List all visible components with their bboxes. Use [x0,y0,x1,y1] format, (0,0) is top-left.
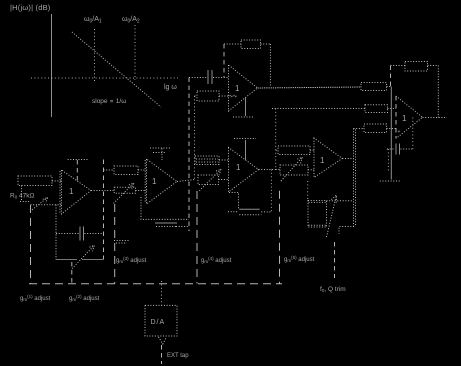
A1 left edge double [59,171,61,213]
riser C3 to A3 output [270,170,272,212]
D/A converter box [145,305,177,336]
slope line [72,32,161,107]
svg-text:f0, Q trim: f0, Q trim [320,286,346,293]
feedback capacitor C3 plate lower [239,214,261,216]
riser bus to D/A box [161,281,163,305]
y-axis [51,14,53,117]
control drop Q (dashed) [334,242,336,278]
wire node to R5 [195,95,198,97]
feedback cap drop from output [412,118,414,150]
capacitor C5 plate upper [233,116,254,118]
wire R5 to A3' [219,95,229,97]
fill texture R8 bottom [309,224,327,226]
wire offset branch down [55,205,57,260]
interstage capacitor C5 upper lead [245,98,247,117]
stub top cap to A2 [161,149,163,161]
riser A3 output up [275,109,277,170]
wire R11 to A5 [388,108,397,110]
control bus (long dashed) [29,283,282,285]
arrowhead R7 [297,157,302,163]
x-axis [31,77,178,79]
trimmer arrow C1 [72,245,94,268]
wire cap input right [213,77,229,79]
svg-text:+: + [398,129,401,135]
svg-text:|H(jω)| (dB): |H(jω)| (dB) [10,3,51,12]
variable resistor R2b box [114,187,135,193]
arrowhead R3b [216,169,221,175]
wire R2b to A2 [136,190,147,192]
wire A3' output long [258,87,362,88]
control drop gm3 (dashed) [114,204,116,284]
arrow of R7 [281,157,302,181]
wire mid from A3 riser [272,108,365,110]
top capacitor plate upper A2 [150,147,171,149]
coupling capacitor C4 plate right [211,70,213,84]
arrow of R8 [327,195,337,237]
trimmer arrowhead C1 [90,245,95,251]
resistor R2a box [114,166,138,175]
feedback cap wire down from input [141,197,189,219]
wire R2a to A2 [138,169,147,171]
svg-text:1: 1 [69,187,74,196]
tick marks on control gm3 [114,240,129,242]
arrowhead R2b [129,183,134,189]
op-amp A1 [62,170,92,214]
svg-text:R0 47kΩ: R0 47kΩ [10,193,35,200]
control drop gm1 (dashed) [30,205,32,284]
wire A3 output [259,169,276,171]
feedback capacitor C2 plate lower [156,226,176,228]
feedback wire top right A5 [428,65,439,67]
resistor R6 box [278,146,310,155]
wire node to R2a [104,169,115,171]
wire lower tap [339,227,354,234]
wire R9 to node [387,86,391,88]
input node marks A3' [230,95,232,97]
coupling capacitor C4 plate left [207,70,209,84]
resistor R5 box lower input A3' [197,91,219,101]
resistor R3a box (dense) [195,156,219,165]
input gm arrowhead [43,198,48,204]
capacitor C5 plate lower [234,138,256,140]
resistor R1 box [18,176,52,186]
wire A4 output [342,158,353,160]
wire trim-cap left [56,233,79,235]
A5 left edge (dashed) [395,96,397,139]
feedback resistor R10 box [405,62,428,72]
wire cap left [387,148,395,150]
Q-net stub down from R7 [307,181,309,201]
variable resistor R3b box [198,175,219,185]
arrowhead below box [159,337,167,344]
wire input lower left [20,201,31,203]
wire R3a to A3 [219,159,229,161]
svg-text:1: 1 [235,84,240,93]
wire lower return left [56,259,77,261]
svg-text:1: 1 [152,177,157,186]
wire input lower right [31,204,62,206]
control drop gm5 (dashed) [279,191,281,284]
capacitor C1 plate right [83,227,85,241]
wire R8 to riser [327,200,354,202]
fill texture R3a [196,158,218,160]
frequency marker w1 dashed [94,29,96,82]
wire stub C3 left [228,211,239,213]
riser to A3top input (long dashed) [188,78,190,232]
feedback T wire A1 [68,159,89,161]
Q-net resistor R8 box [308,201,327,228]
feedback capacitor C2 plate upper [155,222,177,224]
feedback riser right A3' [269,44,271,87]
wire cap right [401,148,413,150]
wire A5 output [423,117,448,119]
wire cap input left [189,77,207,79]
fill texture R8 top [309,201,327,203]
wire C3 to riser [261,211,271,213]
wire out to R7 [276,169,280,171]
wire R7 to A4 [308,169,314,171]
wire R6 to A4 [310,149,314,151]
feedback stub into A1 [76,160,78,181]
wire trim-cap right [85,233,104,235]
wire R3b to A3 [219,179,229,181]
capacitor C5 lower lead [245,140,247,160]
wire lower return right [82,259,104,261]
control drop gm2 (dashed) [71,262,73,284]
svg-text:1: 1 [320,156,325,165]
dashed stub below box [161,345,163,364]
capacitor C6 plate left [395,144,397,155]
wire R12 to A5 [387,128,397,130]
op-amp A3 (mid) [229,148,259,193]
A2 left edge double [144,160,146,203]
wire A2 output [177,180,195,182]
capacitor C6 plate right [399,144,401,155]
feedback riser left A3' [223,44,225,78]
wire A1 output [91,190,114,192]
top capacitor plate lower A2 [153,152,167,154]
resistor R9 box (from A3' output) [361,83,387,91]
svg-text:1: 1 [236,163,241,172]
frequency marker w2 dashed [134,25,136,80]
op-amp A2 [147,159,178,204]
control drop gm4 (dashed) [196,191,198,284]
arrow of R2b [114,183,134,203]
svg-text:slope ∝ 1/ω: slope ∝ 1/ω [92,98,126,105]
svg-text:lg ω: lg ω [164,84,177,91]
resistor R11 box [365,105,388,113]
wire R1 to A1 [52,180,62,182]
ground bar [380,180,401,182]
wire C2 to riser [176,226,189,228]
svg-text:1: 1 [402,114,407,123]
node line N1 (dashed) [103,160,105,260]
wire riser input to R1 [21,186,23,202]
variable resistor R7 box [280,165,308,175]
feedback riser right A5 [437,66,439,118]
feedback riser left A5 (dashed) [390,66,392,87]
ground leg (solid) [390,87,392,180]
feedback wire top left A5 [391,65,406,67]
svg-text:EXT tap: EXT tap [167,353,189,359]
wire riser to R6 [276,149,278,151]
op-amp A3' (top) [229,65,258,111]
input gm arrow [30,198,48,212]
capacitor C1 plate left [79,227,81,241]
feedback wire top right A3' [261,43,271,45]
riser A4 output (double dotted) [353,129,355,227]
op-amp A5 [396,96,423,139]
op-amp A4 [314,138,342,178]
node line N3 [194,96,196,180]
arrow of R3b [199,169,221,191]
stub cap to ground [387,149,389,171]
arrowhead R8 [331,195,336,203]
feedback resistor R4 box [241,40,261,49]
feedback wire top left A3' [224,43,241,45]
resistor R12 box [364,124,387,133]
svg-text:D/A: D/A [151,319,166,326]
feedback capacitor C3 plate upper [239,208,259,210]
feedback wire from A3 lower corner [229,193,239,210]
wire from A4 riser [354,128,365,130]
